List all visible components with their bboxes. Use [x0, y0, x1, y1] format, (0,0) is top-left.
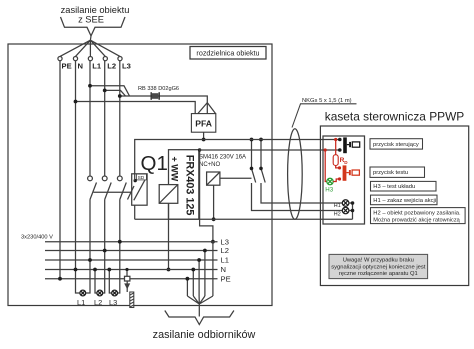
wire lamp L2 neutral drop	[95, 270, 97, 294]
bus L2	[45, 250, 218, 252]
svg-text:PFA: PFA	[195, 119, 212, 129]
node aux1 top	[250, 138, 254, 142]
label zasilanie obiektu z SEE	[61, 5, 130, 25]
wire outgoing bundle convergence	[187, 296, 213, 304]
wire outgoing feeder stem	[198, 304, 200, 317]
lamp L2	[97, 290, 103, 296]
svg-text:RB 338 D02gG6: RB 338 D02gG6	[138, 86, 179, 92]
node H2 common	[351, 209, 355, 213]
svg-text:PE: PE	[221, 274, 231, 283]
bus L3	[45, 241, 218, 243]
note box Uwaga	[329, 254, 428, 278]
legend box przycisk testu	[370, 167, 425, 177]
wire PFA to SD coil	[135, 140, 204, 181]
wire SM416 coil bottom to return	[213, 185, 215, 219]
node tap L2	[103, 89, 107, 93]
svg-text:FRX403 125: FRX403 125	[183, 155, 195, 216]
wire L1 lower (to bus and lamp)	[86, 200, 90, 294]
node N feeder on N bus	[74, 268, 78, 272]
wire L1 main vertical upper	[89, 61, 91, 176]
node tap L1	[88, 84, 92, 88]
svg-text:NC+NO: NC+NO	[199, 162, 221, 168]
svg-text:Można prowadzić akcję ratownic: Można prowadzić akcję ratowniczą	[373, 217, 460, 223]
breaker Q1 main contact L3	[117, 176, 126, 200]
labels lamps L1 L2 L3	[77, 298, 117, 307]
labels PE N L1 L2 L3	[62, 62, 131, 71]
pushbutton przycisk testu (red)	[343, 165, 360, 180]
wire L3 lower (to bus and lamp)	[118, 200, 120, 294]
fuse RB 338 D02gG6	[151, 92, 159, 100]
svg-text:zasilanie odbiorników: zasilanie odbiorników	[153, 329, 256, 341]
legend box H2	[371, 208, 466, 224]
svg-text:N: N	[221, 265, 226, 274]
node przycisk sterujacy terminal bottom	[338, 148, 342, 152]
box kaseta sterownicza PPWP	[320, 126, 468, 286]
wire control feed from L3 bus	[200, 150, 213, 242]
wire outgoing PE drop	[186, 279, 188, 296]
svg-text:N: N	[78, 62, 83, 71]
node aux1 terminal	[250, 167, 254, 171]
svg-text:zasilanie obiektu: zasilanie obiektu	[61, 5, 130, 15]
node red test button bottom	[338, 177, 341, 180]
node przycisk sterujacy terminal top	[338, 138, 342, 142]
svg-text:przycisk sterujący: przycisk sterujący	[373, 142, 419, 148]
wire PFA output drop	[203, 132, 205, 139]
svg-text:L2: L2	[94, 298, 102, 307]
svg-text:H2: H2	[334, 212, 341, 218]
wire tap L2 to fuse bundle	[105, 90, 126, 96]
svg-text:L3: L3	[109, 298, 117, 307]
node N tap	[74, 100, 78, 104]
wire A control line to kaseta (przycisk top)	[204, 139, 340, 141]
node SM coil on return wire	[212, 217, 216, 221]
wire H1 H2 common return	[349, 203, 353, 219]
brace top (under z SEE)	[61, 17, 126, 36]
svg-text:PE: PE	[62, 62, 72, 71]
node red on wire A	[334, 138, 337, 141]
lamp L1	[80, 290, 86, 296]
coil SM416 (square with diagonal)	[207, 172, 220, 185]
node H1 common	[351, 201, 355, 205]
label rozdzielnica obiektu	[190, 47, 266, 60]
node lamp L2 on N bus	[93, 268, 97, 272]
svg-text:SM416 230V 16A: SM416 230V 16A	[199, 154, 246, 160]
breaker Q1 main contact L2	[102, 176, 111, 200]
svg-text:rozdzielnica obiektu: rozdzielnica obiektu	[196, 49, 259, 58]
node SD coil	[134, 179, 137, 182]
funnel above PFA	[198, 103, 216, 114]
svg-text:H3 – test układu: H3 – test układu	[373, 184, 415, 190]
legend box przycisk sterujacy	[370, 139, 423, 149]
wire tap L3 through fuse to PFA	[120, 96, 208, 103]
wire red from A to resistor	[335, 140, 337, 155]
aux contact 1 (to H2)	[252, 140, 343, 211]
wire red resistor to test button	[336, 166, 340, 168]
terminal circles PE N L1 L2 L3	[58, 57, 122, 61]
svg-text:L3: L3	[122, 62, 131, 71]
box kaseta inner component panel	[323, 136, 365, 224]
box rozdzielnica obiektu	[8, 44, 272, 306]
wire N main vertical (continues to lamp L1)	[76, 61, 80, 293]
lamp H3 (green)	[327, 178, 333, 184]
wire lamp L3 neutral drop	[109, 270, 111, 294]
node L3 feeder on L3 bus	[118, 240, 122, 244]
coil FRX403 (square with diagonal)	[159, 185, 178, 204]
resistor RD	[333, 155, 338, 166]
wire E return line kaseta to SD	[135, 218, 353, 220]
node aux2 terminal	[259, 167, 263, 171]
breaker Q1 main contact L1	[88, 176, 97, 200]
svg-text:z SEE: z SEE	[78, 15, 104, 25]
surge arrester to earth	[125, 270, 130, 293]
svg-text:H3: H3	[325, 186, 333, 193]
node outgoing PE	[186, 277, 190, 281]
svg-text:kaseta sterownicza PPWP: kaseta sterownicza PPWP	[325, 110, 465, 124]
wire SM416 coil to aux contact	[220, 177, 252, 179]
node outgoing L1	[197, 258, 201, 262]
cable ellipse NKGs	[288, 129, 303, 220]
node lamp L3 on N bus	[107, 268, 111, 272]
node outgoing N	[191, 268, 195, 272]
node FRX coil on N bus	[167, 268, 171, 272]
node surge arrester on N bus	[125, 268, 128, 271]
lamp L3	[112, 290, 118, 296]
node red test button top	[338, 166, 341, 169]
trip lever diagonal inside Q1 box	[134, 180, 145, 201]
label RD	[340, 157, 349, 165]
wire PE main vertical	[59, 61, 61, 279]
wire stem from brace to fan apex	[89, 36, 92, 40]
wire outgoing L3 drop	[212, 242, 214, 296]
wire L2 main vertical upper	[104, 61, 106, 176]
svg-text:L1: L1	[221, 256, 229, 265]
mechanical coupling line Q1	[94, 191, 132, 193]
svg-text:H1: H1	[334, 203, 341, 209]
box Q1 trip mechanism	[132, 174, 147, 205]
bus L1	[45, 259, 218, 261]
wire outgoing L1 drop	[198, 260, 200, 296]
wire red from B down to H3	[325, 150, 327, 182]
wire outgoing L2 drop	[204, 251, 206, 297]
wire N tap to PFA	[76, 102, 196, 114]
legend box H1	[371, 195, 438, 205]
bus N	[45, 269, 218, 271]
svg-text:3x230/400 V: 3x230/400 V	[21, 235, 53, 241]
lamp H2	[342, 207, 349, 214]
box SD label	[137, 174, 147, 181]
svg-text:L3: L3	[221, 237, 229, 246]
pushbutton przycisk sterujacy	[343, 137, 359, 153]
svg-text:L2: L2	[221, 246, 229, 255]
earth electrode (hatched bar)	[130, 292, 134, 308]
lamp H1	[342, 200, 349, 207]
node L1 feeder on L1 bus	[88, 258, 92, 262]
svg-text:ręczne rozłączenie aparatu Q1: ręczne rozłączenie aparatu Q1	[339, 271, 418, 277]
node red on wire B	[324, 148, 327, 151]
labels bus L3 L2 L1 N PE	[221, 237, 231, 283]
svg-text:Q1: Q1	[141, 152, 168, 175]
node PE feeder on PE bus	[58, 277, 62, 281]
svg-text:SD: SD	[138, 175, 145, 181]
aux contact 2 (to H1)	[261, 140, 342, 204]
node tap L3	[118, 94, 122, 98]
wire L3 main vertical upper	[119, 61, 121, 176]
wire L2 lower (to bus and lamp)	[103, 200, 105, 294]
wire fan from SEE to 5 terminals	[60, 40, 120, 56]
bus PE	[45, 278, 218, 280]
svg-text:L1: L1	[77, 298, 85, 307]
box contactor FRX403	[169, 150, 199, 220]
node control feed on wire B	[198, 148, 201, 151]
wire outgoing N drop	[192, 270, 194, 297]
svg-text:+ WW: + WW	[169, 157, 179, 182]
node control feed on L3 bus	[211, 240, 215, 244]
legend box H3	[371, 181, 437, 191]
brace bottom (zasilanie odbiornikow)	[165, 311, 234, 325]
wire tap L1 to fuse bundle	[90, 86, 130, 96]
node PFA output	[202, 138, 206, 142]
svg-text:przycisk testu: przycisk testu	[373, 170, 408, 176]
relay PFA	[191, 114, 215, 133]
svg-text:L2: L2	[107, 62, 116, 71]
label SM416 230V 16A NC+NO	[199, 154, 246, 167]
mechanical link diagonal to Q1 box	[128, 186, 135, 200]
label NKGs 5 x 1,5 (1 m) with leader	[292, 98, 357, 127]
wire SD coil return	[134, 205, 136, 219]
node aux2 top	[259, 138, 263, 142]
svg-text:H1 – zakaz wejścia akcji: H1 – zakaz wejścia akcji	[373, 198, 436, 204]
wire red H3 to test button bottom	[333, 179, 339, 182]
wire FRX coil to N bus	[168, 203, 170, 269]
svg-text:L1: L1	[92, 62, 102, 71]
wire B control line to kaseta (przycisk bottom)	[199, 149, 340, 151]
svg-text:Uwaga! W przypadku braku: Uwaga! W przypadku braku	[343, 258, 414, 264]
svg-text:sygnalizacji optycznej koniecz: sygnalizacji optycznej konieczne jest	[331, 264, 425, 270]
node L2 feeder on L2 bus	[103, 249, 107, 253]
svg-text:H2 – obiekt pozbawiony zasilan: H2 – obiekt pozbawiony zasilania.	[373, 210, 461, 216]
node outgoing L2	[203, 249, 207, 253]
